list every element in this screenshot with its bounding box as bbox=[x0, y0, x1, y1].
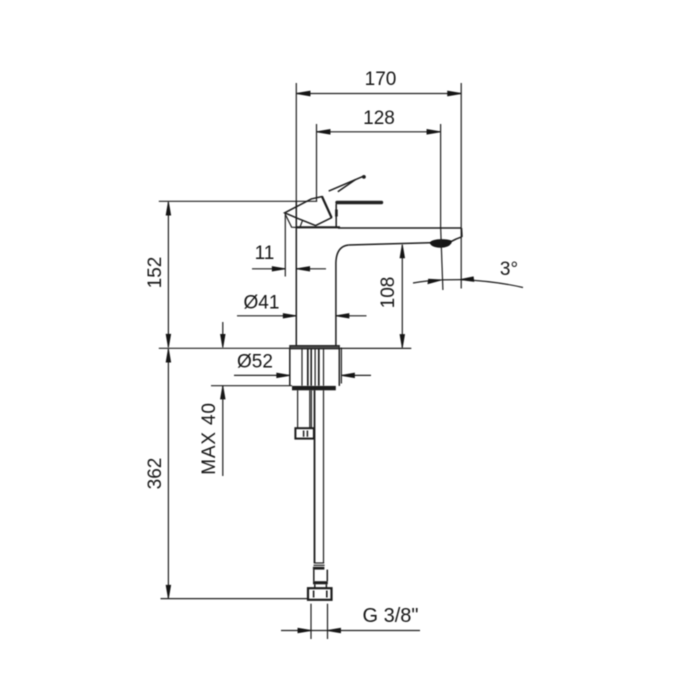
svg-text:11: 11 bbox=[255, 243, 275, 264]
body left edge bbox=[295, 201, 297, 346]
handle lever raised position (diagonal) bbox=[329, 175, 366, 192]
spout underside line bbox=[349, 243, 430, 245]
counter line right segment bbox=[339, 347, 411, 349]
aerator (filled) bbox=[430, 240, 452, 248]
threaded shank tube bbox=[298, 390, 312, 428]
base escutcheon top plate bbox=[290, 346, 340, 349]
dim G3/8 extension lines bbox=[311, 604, 328, 639]
extension line right of 170 / 3deg reference bbox=[460, 83, 462, 289]
spout fillet to body bbox=[336, 245, 349, 263]
svg-text:Ø41: Ø41 bbox=[244, 293, 280, 314]
extension line right of 128 bbox=[440, 124, 442, 229]
body top edge (dark) bbox=[296, 226, 340, 228]
G3/8 connector nut bbox=[308, 588, 332, 600]
svg-text:MAX 40: MAX 40 bbox=[199, 402, 220, 474]
diam52 right extension line bbox=[340, 348, 342, 384]
diam52 left leader arrow bbox=[234, 373, 290, 377]
dim 108 dimension line bbox=[400, 245, 404, 348]
dim 11 dimension line and arrows bbox=[252, 267, 326, 271]
body right edge bbox=[335, 263, 337, 346]
handle cap polygon bbox=[285, 196, 332, 227]
svg-text:G 3/8": G 3/8" bbox=[362, 605, 418, 627]
svg-text:108: 108 bbox=[378, 277, 399, 309]
extension line left of 170 / faucet back edge bbox=[295, 83, 297, 201]
spout tip underside corner bbox=[452, 237, 462, 241]
extension line for 11 (handle back) bbox=[284, 215, 286, 277]
diam52 right leader arrow bbox=[341, 373, 371, 377]
bottom reference extension line bbox=[161, 598, 308, 600]
dim 152 dimension line bbox=[166, 202, 170, 347]
diam41 right leader arrow bbox=[336, 314, 367, 318]
spout end face bbox=[460, 228, 463, 237]
dim 170 dimension line bbox=[297, 91, 462, 96]
top reference extension line bbox=[159, 200, 317, 202]
svg-text:3°: 3° bbox=[500, 259, 518, 280]
base bottom plate (dark) bbox=[292, 386, 336, 390]
diam41 left leader arrow bbox=[237, 314, 296, 318]
svg-text:152: 152 bbox=[145, 257, 166, 289]
dim 128 dimension line bbox=[317, 130, 441, 135]
dim 362 dimension line bbox=[166, 349, 170, 598]
dim MAX 40 dimension line bbox=[221, 322, 225, 476]
handle housing right edge bbox=[335, 204, 337, 227]
counter line left segment bbox=[159, 347, 290, 349]
shank nut bbox=[295, 428, 314, 438]
svg-text:170: 170 bbox=[365, 69, 397, 90]
tilted 3deg line (spout face direction) bbox=[441, 229, 443, 290]
hose end fitting bbox=[313, 563, 328, 588]
handle lever rest position (horizontal thick bar) bbox=[337, 201, 382, 204]
svg-text:Ø52: Ø52 bbox=[237, 352, 273, 373]
extension line left of 128 bbox=[316, 124, 318, 201]
flexible hose bbox=[315, 390, 324, 563]
svg-text:128: 128 bbox=[363, 108, 395, 129]
svg-text:362: 362 bbox=[145, 458, 166, 490]
dim G3/8 dimension line and arrows bbox=[281, 628, 420, 632]
dim 3deg arc and arrows bbox=[413, 277, 523, 288]
spout top line bbox=[338, 227, 462, 229]
max40 lower reference extension line bbox=[211, 385, 292, 387]
base inner vertical lines bbox=[302, 349, 324, 386]
base escutcheon sides bbox=[290, 349, 340, 386]
